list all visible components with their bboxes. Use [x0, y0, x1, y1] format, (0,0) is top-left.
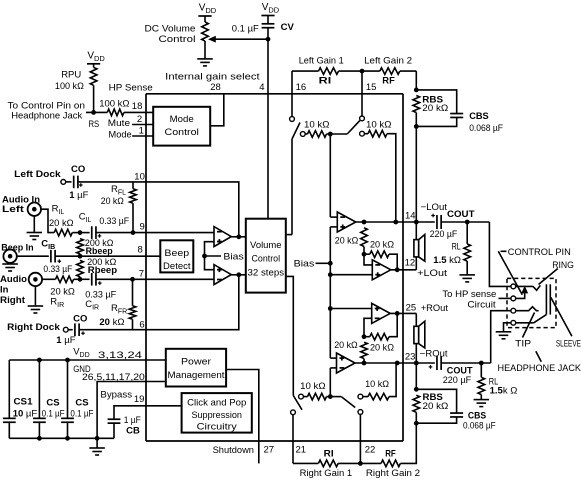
- svg-text:DC Volume: DC Volume: [145, 24, 196, 35]
- node dot bias 3: [328, 306, 333, 311]
- svg-text:RPU: RPU: [61, 70, 81, 81]
- pin 9 wire internal: [146, 232, 214, 234]
- label HEADPHONE JACK: [498, 363, 581, 374]
- svg-text:14: 14: [405, 210, 416, 221]
- bias vertical net: [330, 227, 336, 358]
- svg-text:Left Dock: Left Dock: [14, 169, 61, 180]
- svg-text:Headphone Jack: Headphone Jack: [11, 111, 82, 122]
- label 20k RIR: [50, 287, 75, 298]
- label 0.33uF CIL: [99, 216, 129, 227]
- svg-text:20 kΩ: 20 kΩ: [423, 401, 449, 412]
- label RING: [552, 260, 574, 271]
- jack contact 1 (left out): [511, 284, 516, 289]
- label Audio In Left: [2, 195, 40, 215]
- label Shutdown: [213, 445, 254, 456]
- label Left Gain 2: [364, 56, 412, 67]
- label Beep In: [1, 243, 33, 254]
- svg-text:220 µF: 220 µF: [430, 229, 458, 240]
- svg-text:100 kΩ: 100 kΩ: [99, 99, 129, 110]
- jack contact 4 (sleeve/ground): [511, 320, 516, 325]
- label HP Sense: [109, 83, 153, 94]
- wire COUT-R to jack: [491, 311, 511, 363]
- label Mute: [108, 118, 130, 129]
- jack contact 3 (right out): [511, 308, 516, 313]
- label 1.5k right: [490, 386, 518, 397]
- label 0.1uF: [232, 24, 259, 35]
- label Bias (output stage): [294, 259, 315, 270]
- wire op-amp4 - stub: [330, 368, 336, 397]
- leader HEADPHONE JACK: [536, 351, 542, 362]
- wire +ROut (pin 25): [390, 313, 416, 326]
- node dot VDD rail CS3: [65, 358, 70, 363]
- block Mode Control: [153, 107, 210, 146]
- capacitor COUT 220uF (right): [437, 356, 491, 370]
- svg-text:22: 22: [365, 445, 376, 456]
- plus sign CIL: [98, 234, 102, 238]
- label CV: [281, 22, 295, 33]
- block Power Management: [166, 349, 226, 387]
- resistor RIL 20k: [41, 209, 80, 236]
- svg-text:RL: RL: [452, 241, 461, 252]
- node dot RIL/CIL/Rbeep: [78, 230, 83, 235]
- switch contact (pin22): [358, 410, 363, 415]
- svg-text:Detect: Detect: [163, 261, 191, 272]
- svg-text:Management: Management: [168, 370, 225, 381]
- svg-text:CO: CO: [71, 164, 85, 175]
- resistor RF (Right Gain 2): [381, 423, 416, 467]
- svg-text:20 kΩ: 20 kΩ: [422, 103, 448, 114]
- label 1.5k left: [433, 255, 461, 266]
- svg-text:27: 27: [264, 445, 275, 456]
- svg-text:Rbeep: Rbeep: [86, 246, 113, 257]
- potentiometer DC Volume Control: [202, 16, 209, 59]
- resistor RF (Left Gain 2): [380, 68, 400, 75]
- svg-text:Left Gain 2: Left Gain 2: [364, 56, 412, 67]
- resistor 10k internal R2: [363, 363, 396, 400]
- label -LOut: [421, 202, 448, 213]
- svg-text:CONTROL PIN: CONTROL PIN: [508, 247, 571, 258]
- wire to Bias label: [205, 255, 222, 257]
- IC package outline: [146, 94, 403, 441]
- capacitor CIR 0.33uF: [80, 273, 146, 286]
- resistor 20k feedback R2 (horizontal): [364, 313, 397, 340]
- label 1uF right dock: [56, 335, 75, 346]
- label RFL: [111, 184, 126, 197]
- node dot op-amp4 out: [362, 361, 367, 366]
- node dot RBS L bottom: [414, 124, 419, 129]
- resistor Rbeep2 200k: [77, 260, 84, 279]
- wire contact4 to ground: [504, 323, 511, 332]
- label CIR: [85, 299, 99, 312]
- jack Audio In Right (RCA): [29, 273, 42, 286]
- label 20k L2: [370, 239, 394, 250]
- svg-text:Internal gain select: Internal gain select: [165, 72, 260, 83]
- wire and switch lever right-ch 2: [330, 397, 355, 408]
- svg-text:Bypass: Bypass: [100, 389, 132, 400]
- label 10k R2: [365, 379, 389, 390]
- plus sign CIB: [58, 259, 62, 263]
- node dot rail CS3: [65, 436, 70, 441]
- svg-text:0.1 µF: 0.1 µF: [232, 24, 259, 35]
- label CS3 0.1uF: [70, 397, 93, 419]
- svg-text:RI: RI: [319, 76, 332, 87]
- ground rail bottom: [9, 437, 114, 439]
- svg-text:−ROut: −ROut: [420, 348, 448, 359]
- label CBS left: [469, 111, 503, 134]
- resistor RPU 100k: [90, 64, 97, 113]
- switch contact (pin15): [360, 116, 365, 121]
- resistor 10k internal L1: [305, 131, 330, 138]
- node dot RFL bottom: [131, 230, 136, 235]
- label TIP: [515, 338, 531, 349]
- svg-text:Suppression: Suppression: [191, 410, 242, 421]
- svg-text:Right: Right: [0, 295, 26, 306]
- label SLEEVE: [556, 338, 581, 349]
- wire Left Gain row: [292, 70, 416, 72]
- svg-text:4: 4: [259, 82, 264, 93]
- label CONTROL PIN: [508, 247, 571, 258]
- resistor RIR 20k: [42, 276, 80, 283]
- wire bias to op-amp3 +: [330, 308, 371, 310]
- pin label 12: [405, 258, 416, 269]
- switch lever right-ch 1: [293, 396, 302, 410]
- label RF: [382, 76, 395, 87]
- svg-text:Volume: Volume: [250, 240, 282, 251]
- block Click and Pop Suppression Circuitry: [182, 393, 252, 433]
- ground (pot): [197, 59, 213, 66]
- node dot RBS R top: [414, 387, 419, 392]
- pin 6 wire internal: [146, 275, 239, 330]
- label 0.33uF CIB: [43, 264, 72, 275]
- node dot beep row: [78, 254, 83, 259]
- wire buffer R out to Volume Control: [232, 274, 246, 276]
- svg-text:Circuit: Circuit: [467, 299, 496, 310]
- op-amp U-L2: [372, 260, 391, 280]
- label COUT right: [447, 366, 473, 377]
- svg-text:7: 7: [139, 269, 144, 280]
- svg-text:Control: Control: [165, 127, 199, 138]
- svg-text:15: 15: [366, 82, 377, 93]
- pin 15 wire: [361, 71, 363, 116]
- svg-text:HEADPHONE JACK: HEADPHONE JACK: [498, 363, 581, 374]
- svg-text:26,5,11,17,20: 26,5,11,17,20: [82, 372, 145, 383]
- svg-text:1 µF: 1 µF: [56, 335, 75, 346]
- pin 16 wire: [291, 71, 293, 116]
- block Volume Control 32 steps: [246, 219, 286, 293]
- svg-text:DD: DD: [94, 54, 105, 63]
- switch contact 10k R1: [299, 394, 304, 399]
- label CS2 0.1uF: [42, 397, 65, 419]
- svg-text:2: 2: [137, 114, 142, 125]
- label 220uF right: [443, 375, 472, 386]
- jack Beep In (RCA): [3, 250, 16, 263]
- label 200k Rbeep1: [85, 238, 114, 257]
- label RI bottom: [324, 449, 334, 460]
- svg-text:Shutdown: Shutdown: [213, 445, 254, 456]
- capacitor COUT 220uF (left): [437, 215, 489, 229]
- resistor RL 1.5k (left): [464, 222, 471, 275]
- label RPU 100k: [55, 70, 84, 93]
- capacitor CBS 0.068uF (left): [416, 90, 463, 127]
- svg-text:18: 18: [132, 101, 143, 112]
- pin label 23: [405, 351, 416, 362]
- capacitor CS1 10uF: [3, 360, 16, 438]
- label +ROut: [421, 303, 449, 314]
- node dot -LOut/RBS: [414, 220, 419, 225]
- wire and switch lever left-ch 2: [330, 121, 360, 134]
- node dot rail CS2: [37, 436, 42, 441]
- svg-text:CBS: CBS: [469, 111, 489, 122]
- pin label 21: [296, 445, 307, 456]
- svg-text:28: 28: [210, 82, 221, 93]
- capacitor CB 1uF: [108, 419, 121, 438]
- wire +LOut (pin 12): [391, 269, 417, 271]
- op-amp input buffer left: [214, 227, 231, 247]
- svg-text:20 kΩ: 20 kΩ: [370, 343, 394, 354]
- svg-text:220 µF: 220 µF: [443, 375, 472, 386]
- svg-text:In: In: [0, 285, 9, 296]
- wire 20k to op-amp3 -: [364, 318, 372, 336]
- svg-text:100 kΩ: 100 kΩ: [55, 81, 84, 92]
- label 10k R1: [300, 381, 326, 392]
- wiper arrow and wire to node CV: [209, 37, 268, 42]
- svg-text:To HP sense: To HP sense: [442, 289, 496, 300]
- resistor 20k feedback L2 (horizontal): [364, 251, 397, 270]
- label Right Gain 2: [366, 468, 420, 479]
- svg-text:20 kΩ: 20 kΩ: [334, 340, 358, 351]
- node dot -ROut/RBS: [414, 361, 419, 366]
- label CIL: [79, 212, 92, 225]
- label Left Gain 1: [299, 56, 344, 67]
- wire VDD pins 3,13,24: [9, 359, 166, 361]
- svg-text:19: 19: [134, 394, 145, 405]
- svg-text:20 kΩ: 20 kΩ: [335, 235, 359, 246]
- leader CONTROL PIN: [498, 251, 522, 294]
- svg-text:Click and Pop: Click and Pop: [187, 397, 246, 408]
- pin label 2: [137, 114, 142, 125]
- switch contact (pin16): [290, 117, 295, 122]
- svg-text:10 kΩ: 10 kΩ: [365, 379, 389, 390]
- label CB: [126, 426, 140, 437]
- node dot 10kL2 junction: [393, 220, 398, 225]
- pin label 10: [134, 172, 145, 183]
- svg-text:TIP: TIP: [515, 338, 531, 349]
- label RFR: [111, 303, 127, 316]
- svg-text:20 kΩ: 20 kΩ: [49, 218, 74, 229]
- label 0.33uF CIR: [85, 289, 116, 300]
- svg-text:21: 21: [296, 445, 307, 456]
- node dot RBS L top: [414, 88, 419, 93]
- svg-text:CS1: CS1: [14, 397, 34, 408]
- label Right Dock: [7, 322, 60, 333]
- svg-text:SLEEVE: SLEEVE: [556, 338, 581, 349]
- node dot bias 1: [328, 261, 333, 266]
- node dot COUT/RL right: [479, 361, 484, 366]
- svg-text:0.068 µF: 0.068 µF: [463, 420, 496, 431]
- capacitor CO (left dock) 1uF: [66, 176, 146, 189]
- node dot op-amp1 out: [362, 220, 367, 225]
- pin label 25: [406, 303, 417, 314]
- leader RING: [539, 269, 558, 285]
- label 20k R2: [370, 343, 394, 354]
- pin 28 wire Internal gain select: [210, 94, 224, 126]
- leader SLEEVE: [551, 297, 572, 336]
- label 200k Rbeep2: [87, 257, 117, 276]
- svg-text:RF: RF: [385, 449, 396, 460]
- wire 10k L1 to op-amp1 -: [330, 134, 337, 217]
- svg-text:CV: CV: [281, 22, 295, 33]
- ground (audio in right): [28, 286, 44, 313]
- ground (RL right): [474, 400, 490, 407]
- power flag VDD (pot): [198, 3, 216, 17]
- node dot bias 2: [328, 272, 333, 277]
- label 20k R1: [334, 340, 358, 351]
- svg-text:32 steps: 32 steps: [248, 267, 285, 278]
- label CO left: [71, 164, 85, 175]
- pin label 18: [132, 101, 143, 112]
- wire -LOut (pin 14): [356, 221, 435, 223]
- svg-text:Control: Control: [159, 34, 196, 45]
- svg-text:10 kΩ: 10 kΩ: [304, 120, 330, 131]
- label +LOut: [417, 268, 447, 279]
- capacitor CS2 0.1uF: [33, 360, 46, 438]
- jack Right Dock: [63, 327, 68, 332]
- jack Left Dock: [61, 180, 66, 185]
- wire HP sense stub: [499, 297, 511, 299]
- svg-text:23: 23: [405, 351, 416, 362]
- label RBS left: [422, 95, 448, 115]
- wire GND pins: [97, 382, 166, 439]
- ground (beep in): [2, 264, 18, 271]
- resistor RI (Right Gain 1): [318, 460, 338, 467]
- resistor RFL 20k: [130, 182, 137, 233]
- resistor 20k feedback R1 (vertical): [361, 342, 368, 363]
- svg-text:DD: DD: [268, 6, 279, 15]
- svg-text:20 kΩ: 20 kΩ: [370, 239, 394, 250]
- svg-text:1.5k Ω: 1.5k Ω: [490, 386, 518, 397]
- wire Shutdown pin 27: [226, 370, 259, 464]
- svg-text:CB: CB: [126, 426, 140, 437]
- label 1uF CB: [124, 415, 141, 426]
- resistor 20k feedback L1 (vertical): [361, 228, 368, 255]
- svg-text:−LOut: −LOut: [421, 202, 448, 213]
- pin label 28: [210, 82, 221, 93]
- svg-text:0.33 µF: 0.33 µF: [43, 264, 72, 275]
- switch contact 10k left 2: [360, 131, 365, 136]
- resistor RS 100k and pin 18 wire: [86, 109, 153, 116]
- control pin wiper arrow: [516, 287, 528, 299]
- svg-text:Right Dock: Right Dock: [7, 322, 60, 333]
- svg-text:CO: CO: [73, 313, 87, 324]
- label RL right: [489, 377, 499, 388]
- node dot op-amp2 out: [395, 267, 400, 272]
- svg-text:DD: DD: [205, 6, 216, 15]
- resistor 10k internal R1: [303, 393, 330, 400]
- ground (RL left): [459, 275, 475, 282]
- pin label 15: [366, 82, 377, 93]
- plus sign CO right: [81, 331, 85, 335]
- svg-text:Mode: Mode: [170, 114, 194, 125]
- svg-text:Mute: Mute: [108, 118, 130, 129]
- svg-text:CS: CS: [46, 397, 59, 408]
- speaker right: [414, 321, 425, 363]
- label To HP sense Circuit: [442, 289, 496, 310]
- label RS: [89, 119, 100, 130]
- pin label 19: [134, 394, 145, 405]
- label CIB: [41, 238, 55, 251]
- wire RF to RBS (left): [415, 71, 417, 90]
- svg-text:Beep In: Beep In: [1, 243, 33, 254]
- pin 4 wire into Volume Control: [267, 94, 269, 219]
- node dot CV/pin4: [266, 37, 271, 42]
- label CO right: [73, 313, 87, 324]
- label VDD (supply pin): [73, 347, 89, 360]
- wire buffer L out to Volume Control: [232, 236, 246, 238]
- pin label 9: [140, 222, 145, 233]
- wire bias to op-amp2 +: [330, 274, 372, 276]
- resistor RFR 20k: [129, 279, 136, 329]
- svg-text:Left Gain 1: Left Gain 1: [299, 56, 344, 67]
- node dot RFR top: [130, 277, 135, 282]
- node dot RI/RF junction: [360, 69, 365, 74]
- svg-text:Bias: Bias: [294, 259, 315, 270]
- wire COUT-L to jack: [489, 222, 511, 286]
- label RBS right: [423, 392, 449, 412]
- label GND: [73, 364, 91, 375]
- svg-text:Power: Power: [181, 357, 211, 368]
- speaker left: [414, 222, 425, 270]
- svg-text:Control: Control: [252, 254, 281, 265]
- node dot op-amp3 out: [395, 311, 400, 316]
- svg-text:Mode: Mode: [109, 130, 132, 141]
- node dot COUT/RL left: [465, 220, 470, 225]
- ground (audio in left): [27, 216, 43, 240]
- pin label 27: [264, 445, 275, 456]
- pin 10 wire internal: [146, 182, 239, 237]
- op-amp U-L1: [337, 212, 356, 232]
- label COUT left: [447, 209, 475, 220]
- svg-text:Beep: Beep: [164, 248, 189, 259]
- label Right Gain 1: [300, 468, 353, 479]
- node dot 20k L junction: [362, 252, 367, 257]
- label RIL: [52, 203, 65, 216]
- label Audio In Right: [0, 274, 27, 306]
- svg-text:COUT: COUT: [447, 209, 475, 220]
- label CBS right: [463, 411, 496, 432]
- wire 20k to op-amp2 -: [364, 254, 372, 265]
- svg-text:10: 10: [134, 172, 145, 183]
- node dot bias bracket: [202, 254, 207, 259]
- label 20k RFR: [99, 317, 124, 328]
- svg-text:Audio: Audio: [0, 274, 27, 285]
- resistor RL 1.5k (right): [478, 363, 485, 400]
- svg-text:0.1 µF: 0.1 µF: [70, 409, 93, 420]
- svg-text:10 kΩ: 10 kΩ: [366, 120, 392, 131]
- label 20k RIL: [49, 218, 74, 229]
- node dot RI/RF bottom: [358, 461, 363, 466]
- pin label 1: [139, 126, 144, 137]
- svg-text:CS: CS: [75, 397, 88, 408]
- tip contact: [516, 307, 539, 311]
- switch lever left-ch 1: [292, 123, 300, 235]
- pin label 8: [138, 245, 143, 256]
- pin 8 wire to Beep Detect: [80, 255, 160, 257]
- svg-text:RI: RI: [324, 449, 334, 460]
- wire -ROut to RBS (right): [415, 363, 417, 389]
- wire pin 22: [338, 414, 381, 463]
- node dot feedback R out: [395, 361, 400, 366]
- pin label 16: [296, 82, 307, 93]
